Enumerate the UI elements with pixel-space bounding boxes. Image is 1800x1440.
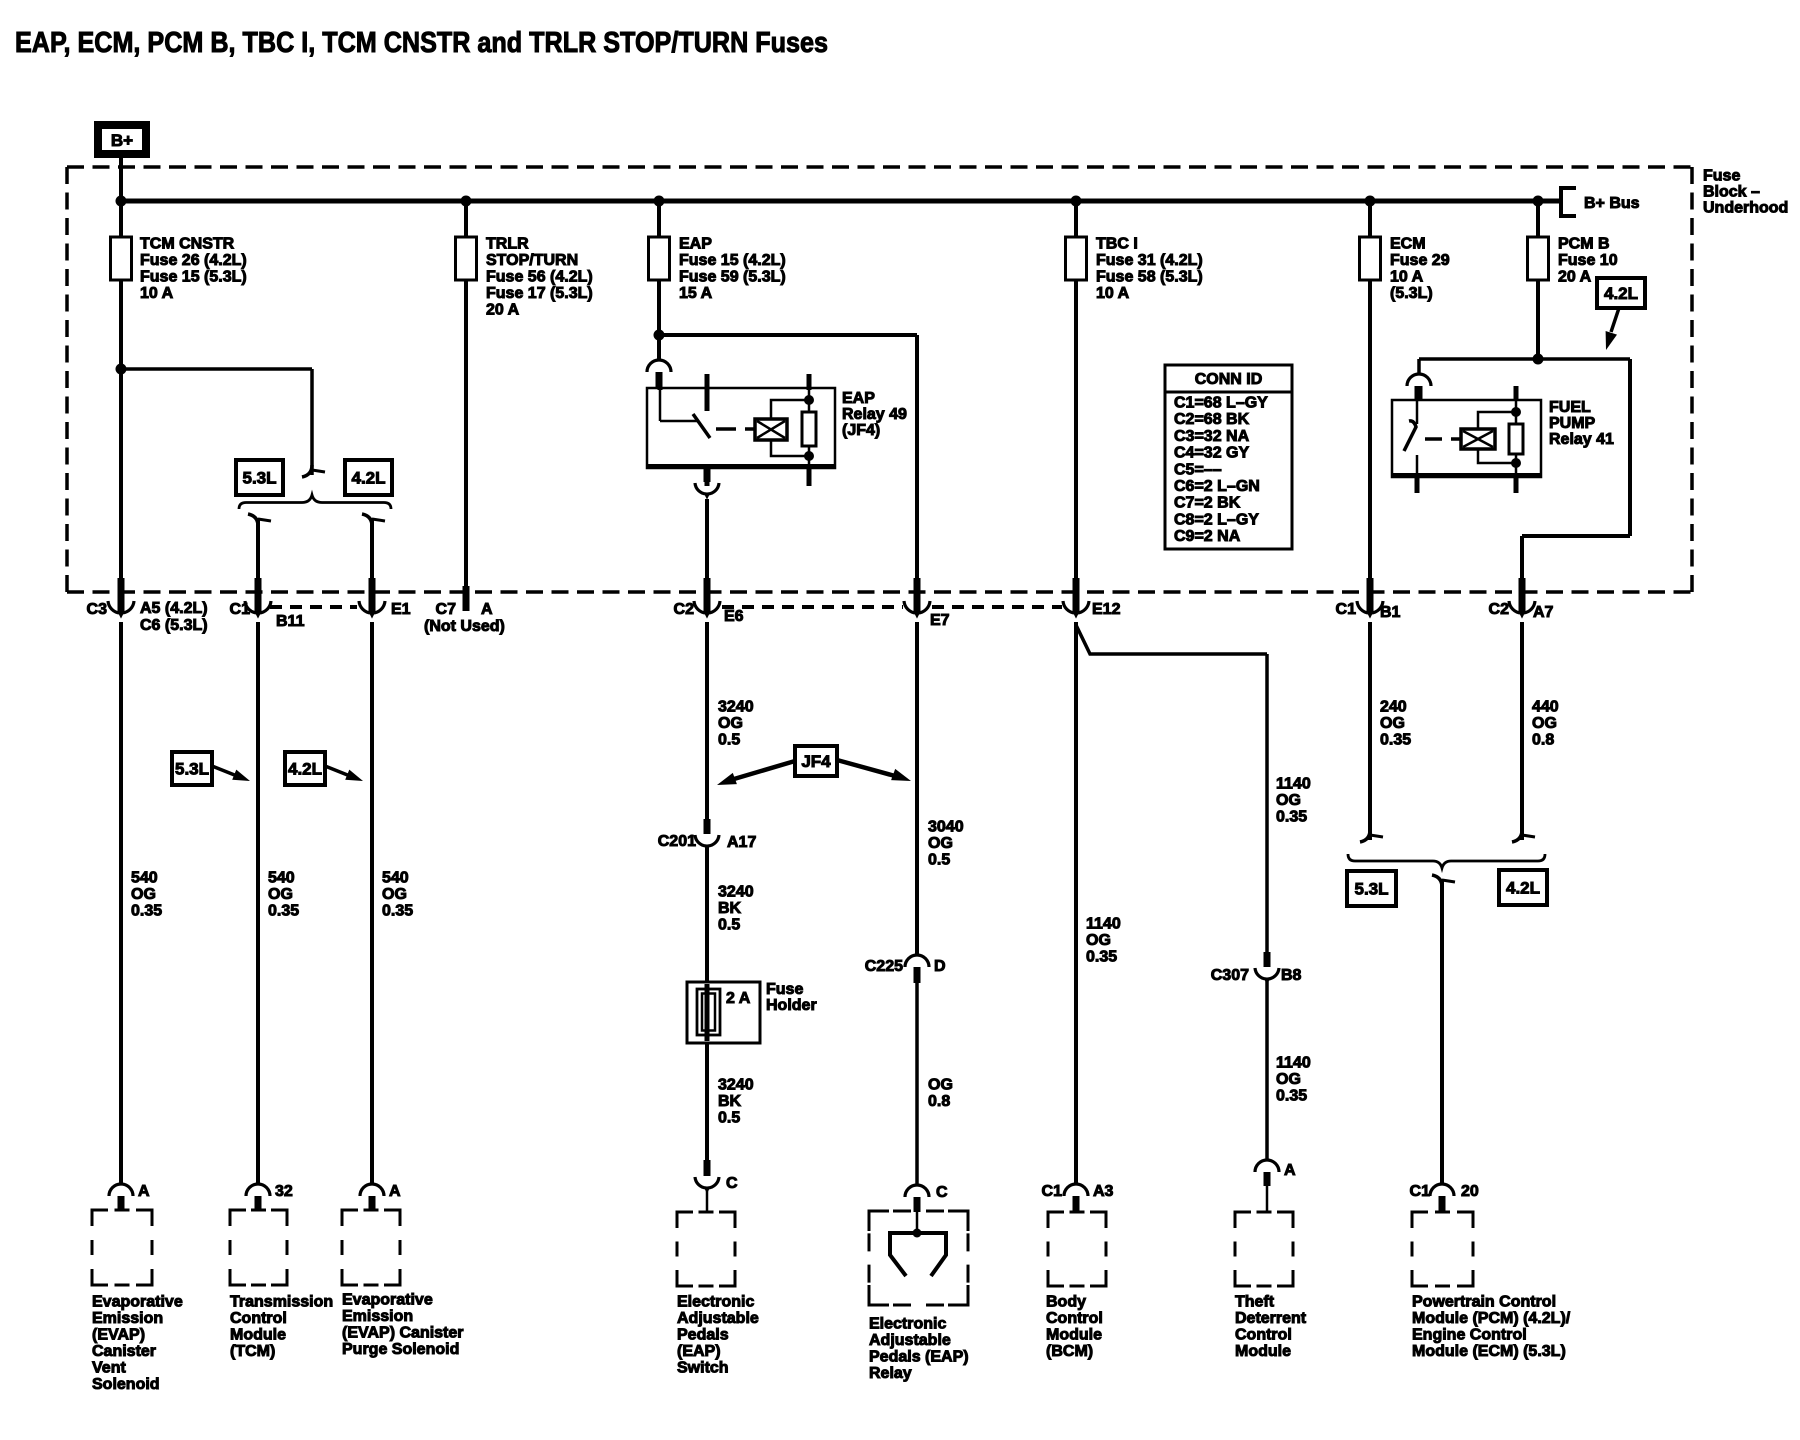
svg-text:Body: Body xyxy=(1046,1294,1086,1311)
connector E7 xyxy=(914,578,921,612)
svg-text:Fuse: Fuse xyxy=(1703,168,1740,185)
svg-text:Canister: Canister xyxy=(92,1343,156,1360)
svg-text:0.8: 0.8 xyxy=(928,1093,950,1110)
svg-text:Relay 49: Relay 49 xyxy=(842,406,907,423)
wire EAP fuse xyxy=(657,201,661,360)
svg-text:C201: C201 xyxy=(658,833,696,850)
svg-text:C: C xyxy=(936,1184,948,1201)
svg-text:(BCM): (BCM) xyxy=(1046,1343,1093,1360)
svg-text:Underhood: Underhood xyxy=(1703,200,1788,217)
svg-text:Emission: Emission xyxy=(342,1308,413,1325)
svg-text:0.8: 0.8 xyxy=(1532,732,1554,749)
svg-text:1140: 1140 xyxy=(1276,776,1311,793)
wire C1/B1 down xyxy=(1368,622,1372,840)
junction bus/EAP xyxy=(654,196,665,207)
5.3L arrow callout xyxy=(172,752,212,785)
svg-text:TCM CNSTR: TCM CNSTR xyxy=(140,236,235,253)
svg-text:A: A xyxy=(389,1183,401,1200)
svg-text:10 A: 10 A xyxy=(1390,269,1424,286)
fuel pump relay pins xyxy=(1415,386,1420,400)
svg-text:OG: OG xyxy=(1276,792,1301,809)
fuel pump relay coil arms xyxy=(1478,412,1516,429)
svg-text:10 A: 10 A xyxy=(140,285,174,302)
svg-text:Evaporative: Evaporative xyxy=(342,1292,433,1309)
B+ bus wire xyxy=(121,199,1560,204)
svg-text:ECM: ECM xyxy=(1390,236,1426,253)
svg-text:Adjustable: Adjustable xyxy=(869,1332,951,1349)
svg-text:B11: B11 xyxy=(276,613,305,630)
svg-text:Module (ECM) (5.3L): Module (ECM) (5.3L) xyxy=(1412,1343,1566,1360)
svg-text:C1: C1 xyxy=(1410,1183,1431,1200)
svg-text:C3=32 NA: C3=32 NA xyxy=(1174,428,1250,445)
svg-text:TBC I: TBC I xyxy=(1096,236,1138,253)
svg-text:Holder: Holder xyxy=(766,997,817,1014)
svg-text:B+: B+ xyxy=(111,131,133,150)
svg-text:0.35: 0.35 xyxy=(1380,732,1411,749)
svg-text:STOP/TURN: STOP/TURN xyxy=(486,252,578,269)
fuse PCM B xyxy=(1528,237,1549,280)
svg-text:C3: C3 xyxy=(87,601,108,618)
svg-text:E7: E7 xyxy=(930,612,950,629)
svg-text:0.5: 0.5 xyxy=(718,732,740,749)
4.2L callout box top right xyxy=(1597,278,1645,308)
svg-text:32: 32 xyxy=(275,1183,293,1200)
fuse block underhood dashed border xyxy=(67,165,1692,169)
connector C1/B11 xyxy=(255,578,262,612)
svg-text:Module: Module xyxy=(1235,1343,1291,1360)
svg-text:OG: OG xyxy=(1086,932,1111,949)
wire PCM B to fuel pump relay xyxy=(1533,354,1544,365)
svg-text:Pedals: Pedals xyxy=(677,1327,729,1344)
wire E1 to EVAP purge xyxy=(370,622,374,1185)
wire PCM B fuse xyxy=(1536,201,1540,361)
svg-text:C1=68 L–GY: C1=68 L–GY xyxy=(1174,395,1268,412)
svg-text:C225: C225 xyxy=(865,958,903,975)
EAP relay module internal wire xyxy=(916,1212,919,1235)
EAP relay module box xyxy=(869,1211,968,1305)
svg-text:C7=2 BK: C7=2 BK xyxy=(1174,495,1241,512)
svg-text:Fuse 56 (4.2L): Fuse 56 (4.2L) xyxy=(486,269,593,286)
svg-text:E1: E1 xyxy=(391,601,411,618)
svg-text:3240: 3240 xyxy=(718,884,754,901)
wire C307 to theft module xyxy=(1265,979,1269,1161)
svg-text:0.5: 0.5 xyxy=(928,852,950,869)
svg-text:5.3L: 5.3L xyxy=(1354,880,1388,899)
connector C2/E6 xyxy=(704,578,711,612)
svg-text:Vent: Vent xyxy=(92,1360,126,1377)
svg-text:B8: B8 xyxy=(1281,967,1302,984)
svg-text:C1: C1 xyxy=(1042,1183,1063,1200)
connector C1/20 (PCM/ECM) xyxy=(1430,1184,1454,1196)
svg-text:A3: A3 xyxy=(1093,1183,1114,1200)
connector C (EAP switch) xyxy=(704,1160,711,1176)
merge brace xyxy=(1348,854,1545,868)
splice hook TCM branch end xyxy=(302,465,312,477)
fuel pump relay box xyxy=(1392,400,1541,477)
wire TCM branch down xyxy=(310,369,314,475)
svg-text:C1: C1 xyxy=(230,601,251,618)
junction bus/ECM xyxy=(1365,196,1376,207)
svg-text:Fuse 29: Fuse 29 xyxy=(1390,252,1450,269)
svg-text:4.2L: 4.2L xyxy=(1604,284,1638,303)
svg-text:Module: Module xyxy=(230,1327,286,1344)
svg-text:(5.3L): (5.3L) xyxy=(1390,285,1433,302)
svg-text:240: 240 xyxy=(1380,699,1407,716)
svg-text:Engine Control: Engine Control xyxy=(1412,1327,1527,1344)
svg-text:B1: B1 xyxy=(1380,604,1401,621)
svg-text:Control: Control xyxy=(1046,1310,1103,1327)
connector C307/B8 xyxy=(1264,952,1271,967)
svg-text:C2=68 BK: C2=68 BK xyxy=(1174,411,1250,428)
svg-text:20 A: 20 A xyxy=(1558,269,1592,286)
svg-text:C2: C2 xyxy=(1489,601,1510,618)
svg-text:A: A xyxy=(1284,1162,1296,1179)
svg-text:(Not Used): (Not Used) xyxy=(424,618,505,635)
svg-text:0.5: 0.5 xyxy=(718,1110,740,1127)
EAP relay switch xyxy=(659,389,662,421)
splice hook merged wire xyxy=(1432,875,1442,887)
svg-text:A5 (4.2L): A5 (4.2L) xyxy=(140,600,208,617)
svg-text:JF4: JF4 xyxy=(801,752,831,771)
theft deterrent module box xyxy=(1235,1212,1293,1286)
svg-text:Fuse 10: Fuse 10 xyxy=(1558,252,1618,269)
svg-text:Control: Control xyxy=(230,1310,287,1327)
EAP switch module box xyxy=(677,1212,735,1286)
svg-text:Emission: Emission xyxy=(92,1310,163,1327)
svg-text:(JF4): (JF4) xyxy=(842,422,880,439)
B+ bus terminal bracket xyxy=(1561,188,1576,216)
svg-text:20 A: 20 A xyxy=(486,302,520,319)
connector C1/B1 xyxy=(1367,578,1374,612)
svg-text:Fuse 17 (5.3L): Fuse 17 (5.3L) xyxy=(486,285,593,302)
connector A (theft module) xyxy=(1255,1160,1279,1172)
svg-text:Powertrain Control: Powertrain Control xyxy=(1412,1294,1556,1311)
svg-text:C2: C2 xyxy=(674,601,695,618)
connector cup below EAP relay xyxy=(704,469,711,482)
svg-text:Fuse 58 (5.3L): Fuse 58 (5.3L) xyxy=(1096,269,1203,286)
connector A (EVAP vent) xyxy=(109,1184,133,1196)
B+ terminal box xyxy=(98,125,146,154)
wire EAP branch to E7 xyxy=(659,333,917,337)
svg-text:BK: BK xyxy=(718,900,742,917)
wire C2/A7 down xyxy=(1520,622,1524,840)
svg-text:3240: 3240 xyxy=(718,699,754,716)
fuse ECM xyxy=(1360,237,1381,280)
svg-text:C5=––: C5=–– xyxy=(1174,461,1222,478)
splice hook branch 4.2L xyxy=(362,514,372,526)
svg-text:B+ Bus: B+ Bus xyxy=(1584,195,1640,212)
svg-text:Purge Solenoid: Purge Solenoid xyxy=(342,1341,459,1358)
wire C3 to EVAP vent solenoid xyxy=(119,622,123,1185)
svg-text:OG: OG xyxy=(1380,715,1405,732)
svg-text:A: A xyxy=(138,1183,150,1200)
svg-text:Module (PCM) (4.2L)/: Module (PCM) (4.2L)/ xyxy=(1412,1310,1571,1327)
fuse TBC I xyxy=(1066,237,1087,280)
splice hook branch 5.3L xyxy=(248,514,258,526)
wire TCM CNSTR fuse xyxy=(119,201,123,597)
svg-text:0.35: 0.35 xyxy=(131,903,162,920)
split brace xyxy=(239,495,391,509)
wire TBC I fuse xyxy=(1074,201,1078,597)
connector C3 xyxy=(118,578,125,612)
wire C2/E6 down xyxy=(705,622,709,820)
svg-text:PUMP: PUMP xyxy=(1549,415,1596,432)
svg-text:EAP, ECM, PCM B, TBC I, TCM CN: EAP, ECM, PCM B, TBC I, TCM CNSTR and TR… xyxy=(15,27,828,59)
wire merged to PCM/ECM xyxy=(1440,879,1444,1185)
svg-text:Relay: Relay xyxy=(869,1365,912,1382)
svg-text:OG: OG xyxy=(928,835,953,852)
svg-text:C1: C1 xyxy=(1336,601,1357,618)
connector line dashes xyxy=(270,605,357,609)
junction bus/TBC I xyxy=(1071,196,1082,207)
EAP relay resistor branch xyxy=(808,389,811,466)
svg-text:(TCM): (TCM) xyxy=(230,1343,275,1360)
svg-text:Control: Control xyxy=(1235,1327,1292,1344)
connector C201/A17 xyxy=(704,819,711,834)
svg-text:Relay 41: Relay 41 xyxy=(1549,431,1614,448)
CONN ID table xyxy=(1165,365,1292,392)
5.3L box (merge) xyxy=(1347,871,1396,906)
svg-text:0.35: 0.35 xyxy=(1276,809,1307,826)
fuse TCM CNSTR xyxy=(111,237,132,280)
fuse holder xyxy=(687,982,760,1043)
svg-text:E12: E12 xyxy=(1092,601,1121,618)
svg-text:Electronic: Electronic xyxy=(677,1294,754,1311)
svg-text:4.2L: 4.2L xyxy=(288,760,322,779)
svg-text:Fuse 15 (4.2L): Fuse 15 (4.2L) xyxy=(679,252,786,269)
wire fuse holder to EAP switch xyxy=(705,1042,709,1160)
fuel pump relay coil dashes xyxy=(1425,437,1461,441)
wire EAP relay to C2/E6 xyxy=(705,499,709,592)
connector E1 xyxy=(369,578,376,612)
connector 32 (TCM) xyxy=(246,1184,270,1196)
4.2L callout arrow xyxy=(1611,308,1619,332)
svg-text:4.2L: 4.2L xyxy=(1506,879,1540,898)
svg-text:C307: C307 xyxy=(1211,967,1249,984)
EAP relay coil dashes xyxy=(716,427,755,431)
svg-text:Solenoid: Solenoid xyxy=(92,1376,160,1393)
svg-text:540: 540 xyxy=(268,870,295,887)
4.2L box (EVAP split) xyxy=(345,460,392,495)
svg-text:Module: Module xyxy=(1046,1327,1102,1344)
svg-text:15 A: 15 A xyxy=(679,285,713,302)
svg-text:C6 (5.3L): C6 (5.3L) xyxy=(140,617,208,634)
svg-text:0.35: 0.35 xyxy=(1086,949,1117,966)
svg-text:5.3L: 5.3L xyxy=(242,469,276,488)
svg-text:OG: OG xyxy=(1532,715,1557,732)
svg-text:540: 540 xyxy=(131,870,158,887)
connector C225/D xyxy=(905,955,929,967)
svg-text:OG: OG xyxy=(718,715,743,732)
svg-text:1140: 1140 xyxy=(1086,916,1121,933)
svg-text:2 A: 2 A xyxy=(726,990,751,1007)
connector A (EVAP purge) xyxy=(360,1184,384,1196)
svg-text:FUEL: FUEL xyxy=(1549,399,1591,416)
EAP relay pins xyxy=(658,374,663,390)
svg-text:Fuse 31 (4.2L): Fuse 31 (4.2L) xyxy=(1096,252,1203,269)
connector E12 xyxy=(1073,578,1080,612)
junction bus/PCM B xyxy=(1533,196,1544,207)
svg-text:OG: OG xyxy=(928,1077,953,1094)
svg-text:A7: A7 xyxy=(1533,604,1554,621)
svg-text:A: A xyxy=(481,601,493,618)
TCM module box xyxy=(230,1210,287,1285)
svg-text:C: C xyxy=(726,1175,738,1192)
svg-text:Evaporative: Evaporative xyxy=(92,1294,183,1311)
svg-text:0.5: 0.5 xyxy=(718,917,740,934)
svg-text:5.3L: 5.3L xyxy=(175,760,209,779)
junction EAP branch xyxy=(654,330,665,341)
wire B11 to TCM xyxy=(256,622,260,1185)
svg-text:Adjustable: Adjustable xyxy=(677,1310,759,1327)
svg-text:CONN ID: CONN ID xyxy=(1195,371,1263,388)
svg-text:Fuse: Fuse xyxy=(766,981,803,998)
svg-text:BK: BK xyxy=(718,1093,742,1110)
svg-text:0.35: 0.35 xyxy=(1276,1088,1307,1105)
wire fuel pump relay loop to C2/A7 xyxy=(1628,359,1632,536)
svg-text:Deterrent: Deterrent xyxy=(1235,1310,1307,1327)
svg-text:Fuse 26 (4.2L): Fuse 26 (4.2L) xyxy=(140,252,247,269)
EVAP purge module box xyxy=(342,1210,400,1285)
svg-text:(EVAP) Canister: (EVAP) Canister xyxy=(342,1325,464,1342)
svg-text:(EVAP): (EVAP) xyxy=(92,1327,145,1344)
svg-text:PCM B: PCM B xyxy=(1558,236,1610,253)
svg-text:4.2L: 4.2L xyxy=(351,469,385,488)
svg-text:Fuse 15 (5.3L): Fuse 15 (5.3L) xyxy=(140,269,247,286)
svg-text:A17: A17 xyxy=(727,834,756,851)
BCM module box xyxy=(1048,1212,1106,1286)
JF4 callout xyxy=(795,746,837,776)
wire ECM fuse xyxy=(1368,201,1372,597)
svg-text:OG: OG xyxy=(268,886,293,903)
connector C7 (not used) xyxy=(463,586,470,611)
5.3L box (TCM split) xyxy=(236,460,283,495)
fuel pump relay coil xyxy=(1461,429,1495,449)
svg-text:C6=2 L–GN: C6=2 L–GN xyxy=(1174,478,1260,495)
svg-text:C4=32 GY: C4=32 GY xyxy=(1174,445,1249,462)
wire branch 4.2L down xyxy=(370,518,374,592)
svg-text:3040: 3040 xyxy=(928,819,964,836)
EAP relay module symbol xyxy=(890,1231,946,1235)
svg-text:0.35: 0.35 xyxy=(382,903,413,920)
4.2L arrow callout xyxy=(285,752,325,785)
svg-text:20: 20 xyxy=(1461,1183,1479,1200)
svg-text:TRLR: TRLR xyxy=(486,236,529,253)
connector C (EAP relay module) xyxy=(905,1185,929,1197)
svg-text:Block –: Block – xyxy=(1703,184,1760,201)
wire C201 to fuse holder xyxy=(705,846,709,985)
svg-text:Pedals (EAP): Pedals (EAP) xyxy=(869,1349,969,1366)
fuel pump relay switch xyxy=(1416,400,1419,424)
svg-text:3240: 3240 xyxy=(718,1077,754,1094)
wire E12 branch to theft module xyxy=(1076,625,1267,654)
EVAP vent module box xyxy=(92,1210,152,1285)
svg-text:440: 440 xyxy=(1532,699,1559,716)
svg-text:C9=2 NA: C9=2 NA xyxy=(1174,528,1241,545)
svg-text:Transmission: Transmission xyxy=(230,1294,333,1311)
wire E12 to BCM xyxy=(1074,622,1078,1185)
svg-text:EAP: EAP xyxy=(842,390,875,407)
svg-text:C8=2 L–GY: C8=2 L–GY xyxy=(1174,511,1259,528)
connector arc above fuel pump relay xyxy=(1407,374,1431,386)
svg-text:Switch: Switch xyxy=(677,1360,729,1377)
svg-text:Theft: Theft xyxy=(1235,1294,1275,1311)
svg-text:OG: OG xyxy=(131,886,156,903)
fuse EAP xyxy=(649,237,670,280)
EAP relay coil xyxy=(755,419,787,440)
svg-text:540: 540 xyxy=(382,870,409,887)
connector C1/A3 (BCM) xyxy=(1064,1184,1088,1196)
wire E7 down xyxy=(915,622,919,956)
svg-text:Fuse 59 (5.3L): Fuse 59 (5.3L) xyxy=(679,269,786,286)
junction bus/TCM CNSTR xyxy=(116,196,127,207)
svg-text:EAP: EAP xyxy=(679,236,712,253)
svg-text:(EAP): (EAP) xyxy=(677,1343,721,1360)
wire B+ to bus xyxy=(119,154,123,203)
connector arc above EAP relay xyxy=(647,360,671,372)
svg-text:OG: OG xyxy=(382,886,407,903)
4.2L box (merge) xyxy=(1499,870,1547,905)
svg-text:D: D xyxy=(934,958,946,975)
svg-text:OG: OG xyxy=(1276,1071,1301,1088)
EAP relay coil arms xyxy=(771,400,809,419)
EAP relay box xyxy=(647,388,835,468)
fuel pump relay resistor branch xyxy=(1515,400,1518,477)
fuse TRLR STOP/TURN xyxy=(456,237,477,280)
PCM/ECM module box xyxy=(1412,1212,1473,1286)
svg-text:E6: E6 xyxy=(724,608,744,625)
svg-text:1140: 1140 xyxy=(1276,1055,1311,1072)
junction bus/TRLR xyxy=(461,196,472,207)
wire TRLR STOP/TURN fuse xyxy=(464,201,468,592)
wire branch 5.3L down xyxy=(256,518,260,592)
svg-text:C7: C7 xyxy=(436,601,457,618)
svg-text:10 A: 10 A xyxy=(1096,285,1130,302)
connector C2/A7 xyxy=(1519,578,1526,612)
wire TCM branch horizontal xyxy=(121,367,312,371)
svg-text:Electronic: Electronic xyxy=(869,1316,946,1333)
wire C225 to EAP relay module xyxy=(915,983,919,1185)
junction TCM branch xyxy=(116,364,127,375)
svg-text:0.35: 0.35 xyxy=(268,903,299,920)
